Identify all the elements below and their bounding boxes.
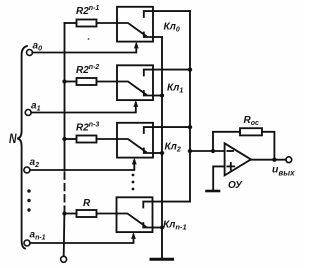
svg-text:Кл1: Кл1	[167, 83, 183, 95]
switch Кл1	[117, 65, 153, 100]
svg-text:R2n-2: R2n-2	[76, 64, 99, 76]
wire Кл(n-1) top contact	[153, 201, 191, 203]
svg-text:R2n-1: R2n-1	[76, 5, 99, 17]
ground bus A	[151, 258, 173, 261]
terminal a(n-1)	[24, 240, 30, 246]
ground op-amp	[207, 190, 220, 193]
arrow into Кл2	[132, 158, 137, 165]
switch Кл0	[117, 7, 153, 42]
svg-text:Rос: Rос	[244, 115, 260, 127]
arrow into Кл(n-1)	[131, 232, 136, 239]
junction bus-R	[62, 211, 66, 215]
wire a(n-1) control line	[30, 235, 134, 243]
reference bus lower	[63, 207, 66, 256]
wire busB to op-amp inverting input	[190, 150, 225, 152]
junction busA Кл1	[160, 93, 164, 97]
resistor R2^(n-3)	[65, 136, 118, 143]
svg-text:a2: a2	[30, 157, 40, 169]
resistor R	[65, 210, 118, 217]
wire feedback up	[213, 132, 240, 151]
svg-text:Клn-1: Клn-1	[163, 220, 187, 232]
wire a0 control line	[33, 45, 137, 53]
speck	[88, 38, 90, 40]
junction busA Кл2	[160, 151, 164, 155]
svg-text:an-1: an-1	[30, 230, 46, 242]
reference bus vertical	[64, 23, 66, 171]
arrow into Кл1	[133, 100, 138, 107]
svg-text:N: N	[9, 131, 17, 146]
terminal reference input	[61, 256, 67, 262]
bus B vertical	[189, 11, 191, 202]
switch Кл(n-1)	[117, 197, 153, 232]
svg-text:a0: a0	[33, 41, 43, 53]
junction bus-R2n2	[62, 79, 66, 83]
junction busB Кл1	[188, 67, 192, 71]
wire feedback down to output	[262, 132, 274, 160]
terminal a0	[27, 50, 33, 56]
terminal a2	[24, 167, 30, 173]
resistor Rос	[240, 128, 262, 135]
junction bus-R2n3	[62, 137, 66, 141]
resistor R2^(n-2)	[65, 78, 118, 85]
bus A vertical	[161, 37, 163, 258]
svg-text:R2n-3: R2n-3	[76, 122, 99, 134]
wire Кл0 bottom contact to bus A	[153, 36, 162, 38]
wire Кл1 bottom contact	[153, 95, 162, 97]
resistor R2^(n-1)	[65, 20, 118, 27]
wire Кл2 top contact	[153, 126, 190, 128]
svg-text:R: R	[83, 198, 91, 209]
wire Кл0 top contact to bus B	[153, 10, 190, 12]
wire Кл(n-1) bottom contact	[153, 227, 163, 229]
wire a1 control line	[31, 103, 136, 113]
switch Кл2	[117, 123, 153, 158]
junction busB Кл2	[188, 125, 192, 129]
ellipsis dots control lines	[132, 174, 135, 191]
terminal output	[286, 157, 292, 163]
junction feedback-output	[272, 158, 276, 162]
terminal a1	[25, 110, 31, 116]
svg-text:a1: a1	[31, 101, 41, 113]
wire op-amp output	[251, 159, 286, 161]
svg-text:Кл2: Кл2	[165, 142, 181, 154]
wire Кл2 bottom contact	[153, 152, 162, 154]
wire a2 control line	[30, 161, 134, 170]
junction busB summing node	[188, 149, 192, 153]
reference bus dashed segment	[64, 173, 66, 208]
arrow into Кл0	[134, 42, 139, 49]
wire op-amp noninverting to ground	[213, 166, 224, 190]
svg-text:ОУ: ОУ	[228, 180, 243, 191]
wire Кл1 top contact	[153, 69, 190, 71]
svg-text:uвых: uвых	[272, 163, 295, 177]
op-amp ОУ	[225, 143, 251, 175]
brace N	[17, 46, 27, 249]
ellipsis dots inputs	[27, 189, 30, 211]
svg-text:Кл0: Кл0	[164, 22, 180, 34]
junction feedback tap	[211, 149, 215, 153]
junction busA Кл(n-1)	[160, 225, 164, 229]
